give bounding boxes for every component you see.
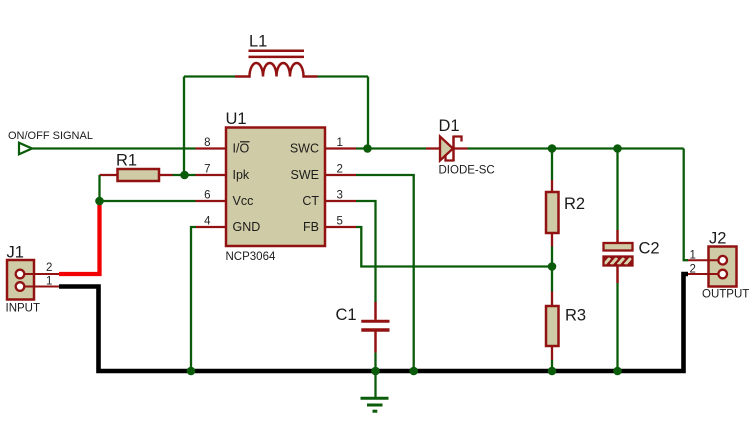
inductor L1 — [235, 33, 318, 77]
svg-text:GND: GND — [233, 220, 261, 234]
wire L1 left vertical down to pin7 node — [183, 77, 185, 176]
svg-text:L1: L1 — [249, 33, 267, 51]
svg-text:4: 4 — [204, 216, 211, 228]
svg-text:2: 2 — [690, 264, 696, 276]
U1 pin 2 SWE — [291, 164, 356, 182]
capacitor C1 — [336, 302, 390, 353]
wire U1 pin2 SWE down to ground rail — [356, 175, 414, 371]
junction Vcc node — [95, 197, 104, 206]
junction pin1 / L1 right — [363, 144, 372, 153]
junction GND rail / SWE — [409, 367, 418, 376]
U1 pin 3 CT — [302, 190, 356, 208]
junction GND rail / U1 gnd — [187, 367, 196, 376]
wire U1 pin1 to D1 anode — [356, 147, 426, 149]
wire R1 left vertical down to Vcc node — [98, 175, 100, 201]
wire U1 GND elbow — [191, 227, 196, 371]
svg-text:1: 1 — [690, 250, 696, 262]
wire D1 node down to R2 — [551, 149, 553, 181]
resistor R2 — [546, 180, 585, 247]
wire (red) Vcc node down to J1 pin 2 — [59, 201, 100, 274]
ground symbol — [361, 371, 389, 411]
svg-text:8: 8 — [204, 137, 210, 149]
svg-text:ON/OFF SIGNAL: ON/OFF SIGNAL — [8, 130, 93, 142]
svg-text:2: 2 — [46, 262, 52, 274]
svg-text:R2: R2 — [564, 195, 585, 213]
svg-text:R3: R3 — [565, 307, 586, 325]
svg-text:6: 6 — [204, 190, 210, 202]
svg-text:1: 1 — [46, 276, 52, 288]
node ON/OFF SIGNAL terminal — [8, 130, 93, 154]
wire output branch down to J2 pin 1 — [684, 149, 688, 261]
wire L1 left lead connection — [184, 75, 235, 77]
wire output node down to C2 — [616, 149, 618, 231]
capacitor C2 electrolytic — [604, 230, 660, 283]
junction GND rail / R3 — [548, 367, 557, 376]
wire U1 pin5 FB to divider node — [356, 227, 552, 267]
wire R1 right to pin7 — [173, 174, 196, 176]
resistor R3 — [546, 292, 586, 361]
wire C2 bottom to ground rail — [616, 283, 618, 371]
U1 pin 4 GND — [196, 216, 260, 234]
wire Vcc node to U1 pin 6 — [100, 200, 196, 202]
wire L1 right lead to right vertical — [318, 75, 369, 77]
svg-text:DIODE-SC: DIODE-SC — [439, 165, 495, 177]
diode D1 DIODE-SC — [426, 117, 495, 177]
junction GND rail / C1 — [371, 367, 380, 376]
op-amp U1 body NCP3064 — [226, 110, 326, 263]
wire C1 bottom to ground rail — [374, 353, 376, 372]
junction GND rail / C2 — [613, 367, 622, 376]
resistor R1 — [100, 152, 173, 182]
wire divider node down to R3 — [551, 267, 553, 292]
U1 pin 7 Ipk — [196, 164, 250, 182]
svg-text:J2: J2 — [709, 230, 726, 248]
svg-text:2: 2 — [337, 164, 343, 176]
svg-text:1: 1 — [337, 137, 343, 149]
svg-text:SWE: SWE — [291, 168, 319, 182]
wire (black) J1 pin1 along bottom to J2 pin 2 — [59, 274, 688, 371]
svg-text:CT: CT — [302, 194, 319, 208]
connector J1 — [6, 244, 60, 315]
svg-text:NCP3064: NCP3064 — [226, 251, 276, 263]
junction FB divider node — [548, 262, 557, 271]
svg-text:C2: C2 — [639, 240, 660, 258]
svg-text:Vcc: Vcc — [233, 194, 254, 208]
wire D1 cathode to J2 branch — [468, 147, 684, 149]
svg-text:SWC: SWC — [290, 142, 319, 156]
U1 pin 8 I/O — [196, 137, 250, 155]
svg-text:FB: FB — [303, 220, 319, 234]
wire R3 bottom to ground rail — [551, 360, 553, 371]
junction C2 top branch — [613, 144, 622, 153]
wire U1 pin3 CT down to C1 — [356, 201, 376, 302]
svg-text:INPUT: INPUT — [6, 303, 41, 315]
junction D1 cathode / R2 top — [548, 144, 557, 153]
svg-text:Ipk: Ipk — [233, 168, 250, 182]
svg-text:R1: R1 — [116, 152, 137, 170]
svg-text:C1: C1 — [336, 306, 357, 324]
svg-text:OUTPUT: OUTPUT — [702, 289, 749, 301]
wire R2 bottom to divider node — [551, 247, 553, 267]
connector J2 — [688, 230, 749, 301]
junction pin7 node — [180, 171, 189, 180]
U1 pin 1 SWC — [290, 137, 356, 155]
svg-text:D1: D1 — [439, 117, 460, 135]
svg-text:7: 7 — [204, 164, 210, 176]
svg-text:U1: U1 — [226, 110, 247, 128]
wire L1 right vertical down to pin1 line — [367, 77, 369, 149]
wire ON/OFF signal to U1 pin 8 — [32, 147, 196, 149]
U1 pin 5 FB — [303, 216, 356, 234]
svg-text:5: 5 — [337, 216, 343, 228]
svg-text:I/O: I/O — [233, 142, 250, 156]
U1 pin 6 Vcc — [196, 190, 254, 208]
svg-text:3: 3 — [337, 190, 343, 202]
